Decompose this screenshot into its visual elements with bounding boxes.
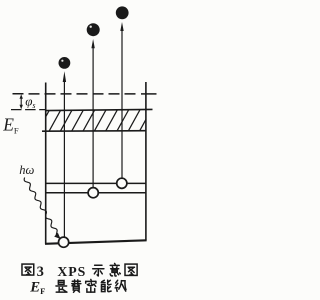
highlight speck on ball 2: [90, 26, 92, 28]
svg-text:hω: hω: [19, 163, 34, 177]
photon squiggle h-omega: [24, 178, 57, 236]
crystal potential well: left wall: [45, 83, 47, 244]
emission path wire from core level (left electron): [63, 80, 65, 237]
caption char: shi (show): [93, 265, 104, 276]
caption char: tu (diagram): [125, 264, 137, 275]
upper occupied level line: [46, 182, 146, 184]
vacuum level final dash crossing right wall: [141, 93, 157, 95]
caption char: yi (meaning): [110, 263, 120, 276]
hole circle on upper level: [117, 178, 127, 188]
arrowhead under ball 3: [120, 22, 123, 31]
caption char: shi (is): [56, 280, 67, 292]
arrowhead under ball 2: [91, 39, 94, 48]
caption char: ji (level): [115, 280, 126, 291]
emission path wire from lower level (middle electron): [92, 48, 94, 188]
highlight speck on ball 1: [61, 60, 63, 62]
caption char: tu (figure): [22, 264, 34, 275]
vacuum level dashed line: [13, 93, 139, 95]
photoelectron ball 3 (right): [116, 6, 129, 19]
photoelectron ball 1 (left): [59, 57, 71, 69]
caption char: fei: [72, 280, 81, 292]
arrowhead under ball 1: [63, 71, 66, 82]
svg-text:XPS: XPS: [57, 264, 86, 279]
crystal potential well: right wall: [145, 82, 147, 240]
hole circle on core level: [59, 237, 69, 247]
valence band top edge (Fermi level E_F): [46, 109, 153, 110]
Fermi level dashed segment (left of box): [11, 109, 46, 111]
lower occupied level line: [46, 192, 146, 194]
emission path wire from upper level (right electron): [121, 31, 123, 179]
caption char: mi: [86, 279, 96, 292]
caption char: neng (energy): [101, 280, 111, 292]
svg-text:3: 3: [37, 264, 44, 280]
hole circle on lower level: [88, 188, 98, 198]
crystal potential well: bottom (core level line): [45, 240, 147, 244]
photon arrowhead: [54, 233, 60, 239]
photoelectron ball 2 (middle): [87, 23, 100, 36]
valence band bottom edge: [42, 130, 146, 133]
work function arrow phi_s (double-headed): [20, 94, 23, 109]
